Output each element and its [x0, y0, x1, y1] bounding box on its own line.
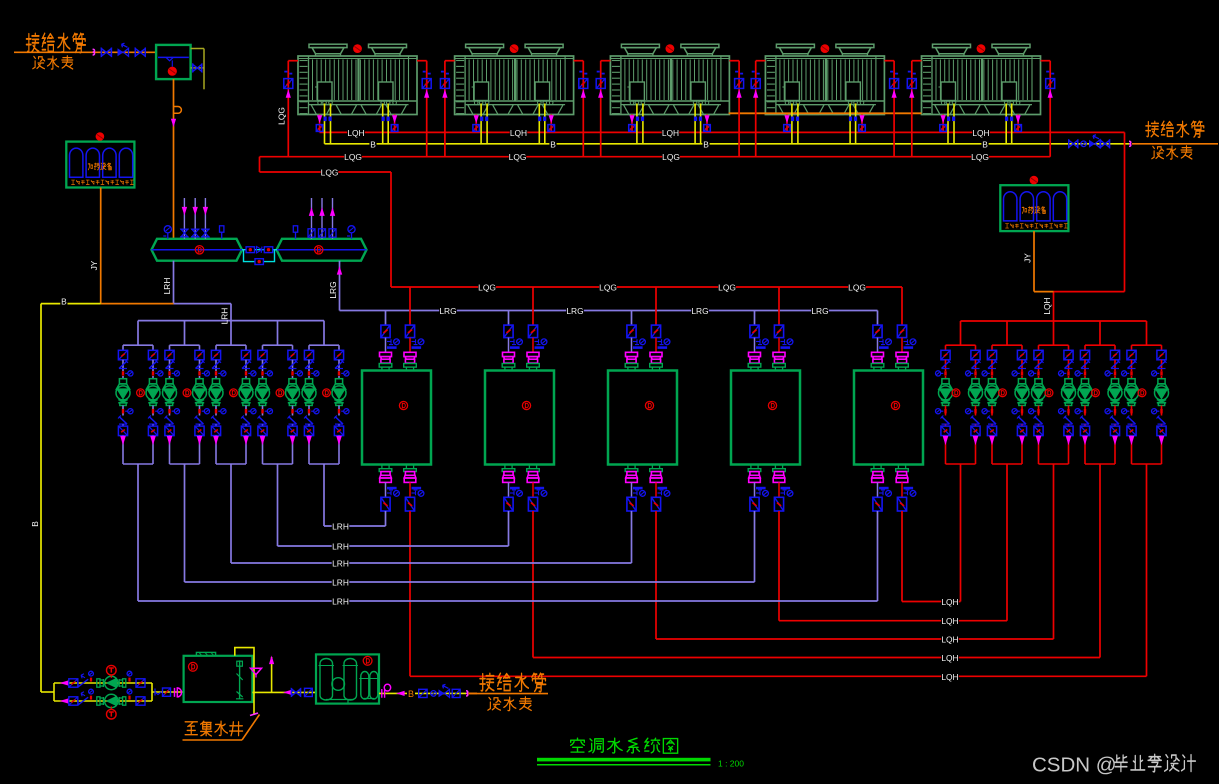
svg-text:LQH: LQH [941, 635, 958, 645]
svg-text:LRG: LRG [691, 306, 708, 316]
svg-text:B: B [30, 521, 40, 527]
svg-text:LRH: LRH [332, 522, 349, 532]
svg-text:CSDN @: CSDN @ [1032, 754, 1117, 777]
svg-text:LQH: LQH [941, 597, 958, 607]
svg-text:B: B [982, 139, 988, 149]
svg-text:LRG: LRG [566, 306, 583, 316]
svg-text:B: B [550, 139, 556, 149]
svg-text:LRH: LRH [162, 278, 172, 295]
svg-text:1 : 200: 1 : 200 [718, 759, 744, 769]
svg-text:LRH: LRH [219, 308, 229, 325]
svg-text:LQH: LQH [662, 128, 679, 138]
svg-text:JY: JY [1022, 253, 1032, 263]
svg-text:JY: JY [89, 260, 99, 270]
svg-text:LRH: LRH [332, 597, 349, 607]
svg-text:LQH: LQH [347, 128, 364, 138]
svg-text:LQH: LQH [941, 672, 958, 682]
svg-text:LQG: LQG [478, 283, 496, 293]
svg-text:LQH: LQH [941, 653, 958, 663]
svg-text:LQG: LQG [344, 152, 362, 162]
svg-text:LRH: LRH [332, 542, 349, 552]
svg-text:LQG: LQG [599, 283, 617, 293]
svg-text:LQG: LQG [277, 107, 287, 125]
svg-text:LQH: LQH [941, 616, 958, 626]
svg-text:LRH: LRH [332, 578, 349, 588]
svg-text:LQH: LQH [972, 128, 989, 138]
svg-text:LQH: LQH [510, 128, 527, 138]
svg-text:LQG: LQG [718, 283, 736, 293]
svg-text:B: B [370, 139, 376, 149]
svg-text:LQG: LQG [321, 168, 339, 178]
svg-text:LRH: LRH [332, 559, 349, 569]
svg-text:LRG: LRG [439, 306, 456, 316]
svg-text:B: B [703, 139, 709, 149]
svg-text:B: B [61, 297, 67, 307]
svg-text:LQG: LQG [662, 152, 680, 162]
svg-text:LRG: LRG [811, 306, 828, 316]
svg-text:LQH: LQH [1042, 297, 1052, 314]
svg-text:LRG: LRG [328, 281, 338, 298]
svg-text:LQG: LQG [848, 283, 866, 293]
svg-text:B: B [408, 689, 414, 699]
svg-text:LQG: LQG [509, 152, 527, 162]
svg-text:LQG: LQG [971, 152, 989, 162]
